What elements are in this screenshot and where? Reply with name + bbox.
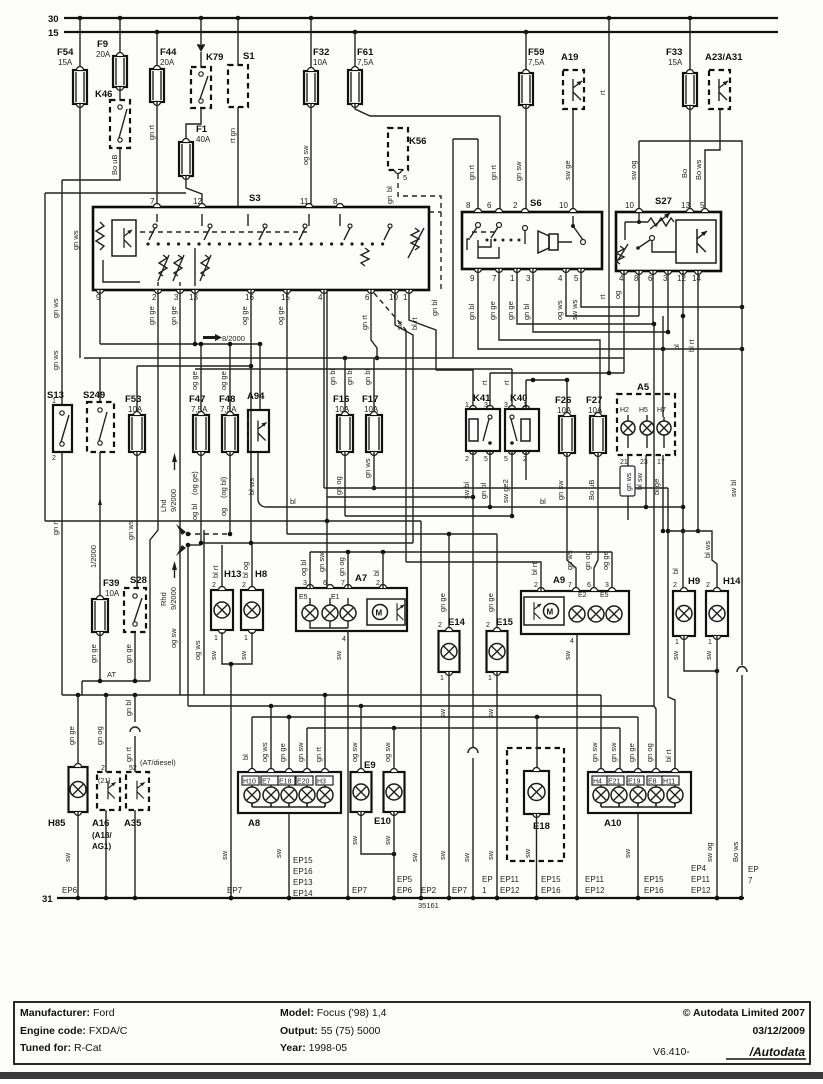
svg-text:E20: E20: [297, 779, 310, 786]
svg-text:F47: F47: [189, 394, 205, 405]
wire S6 pin7 gn ge to F27: [499, 269, 600, 416]
wire S27 pin6 to A10 gn og: [654, 324, 656, 772]
fuse F48: [222, 411, 238, 456]
wire A19 to S6 pin10 sw ge: [572, 109, 574, 212]
svg-text:20A: 20A: [160, 58, 175, 67]
svg-text:5: 5: [574, 274, 579, 283]
svg-text:K56: K56: [409, 136, 426, 147]
switch S249: [99, 358, 101, 402]
svg-text:F32: F32: [313, 47, 329, 58]
svg-text:10A: 10A: [557, 406, 572, 415]
svg-text:EP7: EP7: [352, 886, 368, 895]
wire A8 ground: [288, 813, 290, 898]
wire h y488: [324, 487, 668, 489]
svg-text:bl ws: bl ws: [247, 478, 256, 495]
wire F26 top: [566, 380, 568, 416]
svg-text:H7: H7: [657, 407, 666, 414]
svg-text:9/2000: 9/2000: [169, 587, 178, 610]
svg-text:5: 5: [504, 456, 508, 463]
wire H8 bl og: [251, 545, 253, 590]
svg-text:sw: sw: [563, 650, 572, 660]
wire rt from bus 30: [608, 18, 610, 373]
svg-text:Lhd: Lhd: [159, 499, 168, 512]
lamp module A7: [296, 588, 407, 631]
svg-text:20A: 20A: [96, 50, 111, 59]
wire A5 H7 top: [662, 349, 664, 417]
svg-text:sw: sw: [438, 850, 447, 860]
wire F44 to S3 pin7 gn rt: [156, 102, 158, 207]
svg-text:Engine code: FXDA/C: Engine code: FXDA/C: [20, 1025, 128, 1037]
wire F47 top og ge: [200, 344, 202, 415]
svg-text:9/2000: 9/2000: [169, 489, 178, 512]
svg-text:2: 2: [486, 622, 490, 629]
wire A23 to S27 pin5 Bo ws: [705, 109, 720, 212]
svg-text:H14: H14: [723, 576, 741, 587]
svg-text:F54: F54: [57, 47, 74, 58]
svg-text:bl: bl: [290, 497, 296, 506]
svg-text:gn sw: gn sw: [296, 742, 305, 762]
svg-text:gn rt: gn rt: [360, 314, 369, 330]
svg-text:gn sw: gn sw: [609, 742, 618, 762]
wire F61 out gn sw: [355, 104, 500, 116]
svg-text:2: 2: [438, 622, 442, 629]
svg-text:2: 2: [212, 582, 216, 589]
wire E18 ground: [536, 814, 538, 898]
svg-text:A35: A35: [124, 818, 142, 829]
svg-text:2: 2: [242, 582, 246, 589]
svg-text:EP15: EP15: [644, 875, 664, 884]
svg-text:H13: H13: [224, 569, 241, 580]
svg-text:gn bl: gn bl: [328, 368, 337, 385]
wire F54 out gn ws: [79, 104, 81, 358]
svg-text:A94: A94: [247, 391, 265, 402]
switch S1: [237, 18, 239, 65]
bottom border line: [0, 1072, 823, 1079]
wire F48 bottom og: [229, 452, 231, 534]
wire S3 pin15: [286, 290, 288, 534]
fuse F54: [79, 18, 81, 70]
svg-text:bl rt: bl rt: [211, 565, 220, 578]
svg-text:(21): (21): [98, 778, 110, 785]
svg-text:gn bl: gn bl: [345, 368, 354, 385]
svg-text:gn bl: gn bl: [479, 482, 488, 499]
module A23/A31: [709, 70, 730, 109]
svg-text:H3: H3: [317, 779, 326, 786]
fuse F44: [156, 32, 158, 69]
svg-text:15A: 15A: [58, 58, 73, 67]
svg-text:gn rt: gn rt: [467, 164, 476, 180]
svg-text:gn ge: gn ge: [488, 301, 497, 320]
wire EP2 ground drop: [420, 521, 422, 898]
wire A5 pin17 bl ge: [662, 455, 664, 531]
svg-text:S27: S27: [655, 196, 672, 207]
control module S3: [93, 207, 429, 290]
wire bl net: [258, 500, 266, 507]
svg-text:AT: AT: [107, 670, 116, 679]
svg-text:E5: E5: [299, 594, 308, 601]
wire A10 feeds: [600, 695, 602, 772]
svg-text:Bo ws: Bo ws: [731, 841, 740, 862]
svg-text:4: 4: [318, 293, 323, 302]
svg-text:gn bl: gn bl: [467, 303, 476, 320]
wire E14 ground: [448, 672, 450, 898]
svg-text:A5: A5: [637, 382, 650, 393]
wire F16 top gn bl: [344, 358, 346, 415]
svg-text:A16: A16: [92, 818, 109, 829]
wire S3 pin6 dashed sw: [374, 293, 406, 330]
svg-text:og ws: og ws: [555, 300, 564, 320]
svg-text:S1: S1: [243, 51, 255, 62]
svg-text:2: 2: [52, 455, 56, 462]
svg-text:EP15: EP15: [293, 856, 313, 865]
svg-text:15: 15: [48, 28, 59, 39]
svg-text:3: 3: [484, 402, 488, 409]
svg-text:gn ge: gn ge: [89, 644, 98, 663]
svg-text:bl: bl: [672, 344, 681, 350]
svg-text:10A: 10A: [364, 405, 379, 414]
svg-text:EP14: EP14: [293, 889, 313, 898]
svg-text:17: 17: [657, 459, 665, 466]
svg-text:EP11: EP11: [585, 875, 605, 884]
lamp E18 dashed: [507, 748, 564, 861]
svg-text:EP11: EP11: [500, 875, 520, 884]
svg-text:F61: F61: [357, 47, 374, 58]
svg-text:10A: 10A: [105, 589, 120, 598]
wire F17 bottom gn ws: [373, 452, 375, 488]
svg-text:bl: bl: [385, 186, 394, 192]
svg-text:sw: sw: [63, 852, 72, 862]
svg-text:30: 30: [48, 14, 59, 25]
svg-text:1: 1: [244, 635, 248, 642]
svg-text:F9: F9: [97, 39, 108, 50]
svg-text:V6.410-: V6.410-: [653, 1046, 690, 1058]
svg-text:og sw: og sw: [169, 628, 178, 648]
svg-text:E2: E2: [578, 592, 587, 599]
svg-text:4: 4: [570, 638, 574, 645]
svg-text:Bo: Bo: [680, 169, 689, 178]
svg-text:1/2000: 1/2000: [89, 545, 98, 568]
svg-text:EP7: EP7: [452, 886, 468, 895]
svg-text:gn ge: gn ge: [169, 306, 178, 325]
wire S27 pin6 down: [652, 271, 654, 324]
svg-text:(og bl): (og bl): [219, 476, 228, 498]
lamp module A10: [588, 772, 691, 813]
wire x453 riser: [452, 139, 454, 358]
svg-text:og ge: og ge: [219, 371, 228, 390]
svg-text:og sw: og sw: [301, 145, 310, 165]
relay K56: [388, 128, 408, 170]
svg-text:10A: 10A: [128, 405, 143, 414]
svg-text:gn bl: gn bl: [363, 368, 372, 385]
wire K41 pin2 sw bl ground: [472, 451, 474, 747]
svg-text:gn bl: gn bl: [522, 303, 531, 320]
svg-text:gn sw: gn sw: [556, 480, 565, 500]
svg-text:E18: E18: [279, 779, 292, 786]
svg-text:2: 2: [673, 582, 677, 589]
svg-text:EP7: EP7: [227, 886, 243, 895]
wire S3 pin3 gn ge: [179, 290, 181, 695]
svg-text:8/2000: 8/2000: [222, 334, 245, 343]
svg-text:H85: H85: [48, 818, 66, 829]
svg-text:EP: EP: [748, 865, 759, 874]
svg-text:sw: sw: [671, 650, 680, 660]
switch unit S27: [616, 212, 721, 271]
svg-text:og bl: og bl: [299, 559, 308, 576]
svg-text:15A: 15A: [668, 58, 683, 67]
svg-text:F17: F17: [362, 394, 378, 405]
svg-text:23: 23: [640, 459, 648, 466]
svg-text:gn sw: gn sw: [590, 742, 599, 762]
wire A5 pin23 bl: [645, 455, 647, 507]
lamp module A8: [238, 772, 341, 813]
wire S3 pin10 bl rt: [395, 290, 413, 543]
svg-text:og ws: og ws: [193, 640, 202, 660]
svg-text:gn bl: gn bl: [124, 699, 133, 716]
fuse F61: [354, 32, 356, 70]
svg-text:3: 3: [504, 402, 508, 409]
wire F26 to A9 pin7 gn sw: [567, 453, 576, 591]
svg-text:A9: A9: [553, 575, 565, 586]
wire F39 out gn ge: [99, 632, 101, 681]
svg-text:bl: bl: [241, 754, 250, 760]
svg-text:EP12: EP12: [691, 886, 711, 895]
svg-text:6: 6: [648, 274, 653, 283]
svg-text:H9: H9: [688, 576, 700, 587]
svg-text:8: 8: [634, 274, 639, 283]
wire S28 out gn ge: [134, 632, 136, 681]
svg-text:sw ws: sw ws: [570, 299, 579, 320]
svg-text:gn og: gn og: [95, 726, 104, 745]
svg-text:bl og: bl og: [241, 562, 250, 578]
wire h y358: [84, 357, 624, 359]
svg-text:gn rt: gn rt: [124, 746, 133, 762]
svg-text:12: 12: [677, 274, 686, 283]
wire A10 ground: [637, 813, 639, 898]
wire A35 ground: [134, 810, 136, 898]
svg-text:gn ge: gn ge: [486, 593, 495, 612]
fuse F16: [337, 411, 353, 456]
wire AT junction: [82, 680, 150, 682]
bus 15 line: [64, 31, 778, 33]
svg-text:sw: sw: [523, 848, 532, 858]
svg-text:F44: F44: [160, 47, 177, 58]
svg-text:sw: sw: [383, 835, 392, 845]
module A35: [134, 695, 136, 722]
svg-text:gn sw: gn sw: [514, 161, 523, 181]
svg-text:E19: E19: [628, 779, 641, 786]
wire A5 pin21 gn ws boxed: [627, 455, 629, 466]
wire og ws down: [203, 530, 205, 695]
wire K40 pin5 sw ge: [511, 451, 513, 516]
wire S13 pin2 gn rt: [61, 452, 63, 695]
svg-text:gn rt: gn rt: [147, 124, 156, 140]
svg-text:(og ge): (og ge): [190, 471, 199, 495]
fuse F53: [136, 366, 138, 415]
svg-text:E21: E21: [608, 779, 621, 786]
wire bus y706: [188, 705, 654, 707]
svg-text:10: 10: [625, 201, 634, 210]
svg-text:og ge: og ge: [240, 306, 249, 325]
footer info box: [14, 1002, 810, 1064]
svg-text:3: 3: [663, 274, 668, 283]
wire S3 pin2 gn ge: [150, 290, 158, 681]
svg-text:gn ge: gn ge: [278, 743, 287, 762]
wire S27 pin8: [638, 271, 640, 316]
svg-text:Output: 55 (75) 5000: Output: 55 (75) 5000: [280, 1025, 381, 1037]
svg-text:sw: sw: [220, 850, 229, 860]
svg-text:2: 2: [706, 582, 710, 589]
svg-text:Year: 1998-05: Year: 1998-05: [280, 1042, 347, 1054]
svg-text:10A: 10A: [313, 58, 328, 67]
wire h y516: [345, 515, 512, 517]
svg-text:gn ws: gn ws: [51, 350, 60, 370]
svg-text:H8: H8: [255, 569, 267, 580]
svg-text:9: 9: [470, 274, 475, 283]
wire S27 pin3 stub: [667, 271, 669, 332]
lamp H85: [77, 695, 79, 767]
svg-text:E8: E8: [648, 779, 657, 786]
svg-text:EP16: EP16: [293, 867, 313, 876]
svg-text:7: 7: [492, 274, 497, 283]
lamp E9: [360, 706, 362, 772]
wire A9 pin2 bl rt: [406, 562, 541, 591]
svg-text:sw: sw: [274, 848, 283, 858]
module A19: [563, 70, 584, 109]
svg-text:gn og: gn og: [583, 551, 592, 570]
svg-text:1: 1: [675, 639, 679, 646]
svg-text:H11: H11: [663, 779, 675, 786]
svg-text:35161: 35161: [418, 901, 439, 910]
motor module A9: [521, 591, 629, 634]
wire E14 E15 feed gn ge: [287, 533, 497, 535]
wire K40 pin2: [525, 451, 527, 480]
wire bus y695: [62, 694, 601, 696]
wire dashed Lhd Rhd junction: [186, 533, 232, 535]
svg-text:10A: 10A: [588, 406, 603, 415]
svg-text:1: 1: [488, 675, 492, 682]
svg-text:E1: E1: [331, 594, 340, 601]
svg-text:E14: E14: [448, 617, 466, 628]
svg-text:bl ge: bl ge: [652, 479, 661, 495]
svg-text:sw: sw: [239, 650, 248, 660]
svg-text:2: 2: [534, 582, 538, 589]
svg-text:sw og: sw og: [629, 160, 638, 180]
wire S6 pin4 og ws: [566, 269, 639, 316]
wire S249 to F39 1/2000: [99, 452, 101, 599]
wire S1 to S3 rt gn: [237, 107, 239, 207]
svg-text:F59: F59: [528, 47, 544, 58]
svg-text:EP5: EP5: [397, 875, 413, 884]
svg-text:og bl: og bl: [190, 503, 199, 520]
relay K79: [200, 52, 202, 67]
svg-text:3: 3: [526, 274, 531, 283]
wire A94 bl ws: [257, 452, 259, 500]
wire K41 pin5 gn bl: [489, 451, 491, 507]
svg-text:Model: Focus ('98) 1,4: Model: Focus ('98) 1,4: [280, 1007, 387, 1019]
fuse F17: [366, 411, 382, 456]
S27 interior: [625, 212, 648, 222]
svg-text:F27: F27: [586, 395, 602, 406]
svg-text:S249: S249: [83, 390, 105, 401]
wire S3 pin13: [194, 290, 196, 344]
svg-text:1: 1: [403, 293, 408, 302]
svg-text:gn ws: gn ws: [126, 520, 135, 540]
wire F32 to S3 pin11 og sw: [310, 104, 312, 207]
wire K56 dashed bl gn: [398, 174, 441, 290]
svg-text:F48: F48: [219, 394, 235, 405]
svg-text:K46: K46: [95, 89, 112, 100]
wire bus y552: [310, 551, 612, 553]
svg-text:1: 1: [510, 274, 515, 283]
svg-text:sw: sw: [334, 650, 343, 660]
svg-text:bl: bl: [372, 570, 381, 576]
svg-text:31: 31: [42, 894, 53, 905]
svg-text:5: 5: [403, 173, 407, 182]
svg-text:M: M: [376, 609, 383, 618]
svg-text:2: 2: [513, 201, 518, 210]
svg-text:gn ws: gn ws: [51, 298, 60, 318]
svg-text:3: 3: [174, 293, 179, 302]
svg-text:2: 2: [465, 456, 469, 463]
wire rt bus to relays: [490, 372, 624, 374]
svg-text:bl rt: bl rt: [687, 339, 696, 352]
svg-text:gn ws: gn ws: [363, 458, 372, 478]
svg-text:2: 2: [152, 293, 157, 302]
svg-text:H5: H5: [639, 407, 648, 414]
bus 31 ground line: [57, 897, 744, 899]
wire F1 to S3 pin12: [186, 176, 202, 207]
svg-text:5: 5: [484, 456, 488, 463]
svg-text:EP16: EP16: [644, 886, 664, 895]
wire F16 bottom gn og: [344, 452, 346, 516]
lamp module A5: [617, 394, 675, 455]
svg-text:7,5A: 7,5A: [191, 405, 208, 414]
wire S6 pin5 sw ws: [581, 269, 742, 307]
svg-text:10: 10: [389, 293, 398, 302]
svg-text:K41: K41: [473, 393, 491, 404]
wire S27 pin12 bl: [682, 271, 684, 560]
svg-text:bl ws: bl ws: [703, 541, 712, 558]
svg-text:S28: S28: [130, 575, 147, 586]
svg-text:gn bl: gn bl: [430, 299, 439, 316]
switch unit S6: [462, 212, 602, 269]
svg-text:15: 15: [281, 293, 290, 302]
svg-text:7: 7: [568, 582, 572, 589]
svg-text:Manufacturer: Ford: Manufacturer: Ford: [20, 1007, 115, 1019]
svg-text:gn ge: gn ge: [438, 593, 447, 612]
svg-text:1: 1: [440, 675, 444, 682]
wire F17 top gn bl: [373, 358, 375, 415]
wire H13 bl rt: [221, 545, 223, 590]
svg-text:gn og: gn og: [334, 476, 343, 495]
svg-text:E18: E18: [533, 821, 550, 832]
fuse F33: [689, 18, 691, 73]
fuse F47: [193, 411, 209, 456]
svg-text:og ge: og ge: [601, 551, 610, 570]
wire S27 pin14 bl rt: [697, 271, 699, 531]
wire bus y521: [44, 193, 46, 521]
wire F48 top og ge: [229, 344, 231, 415]
svg-text:gn og: gn og: [645, 743, 654, 762]
svg-text:gn ws: gn ws: [626, 472, 633, 491]
svg-text:EP: EP: [482, 875, 493, 884]
svg-text:gn sw: gn sw: [317, 552, 326, 572]
fuse F39: [92, 595, 108, 636]
svg-text:1: 1: [465, 402, 469, 409]
svg-text:gn rt: gn rt: [314, 746, 323, 762]
wire F47 bottom og bl: [200, 452, 202, 543]
wire to S6 pin8 gn rt: [453, 138, 478, 140]
